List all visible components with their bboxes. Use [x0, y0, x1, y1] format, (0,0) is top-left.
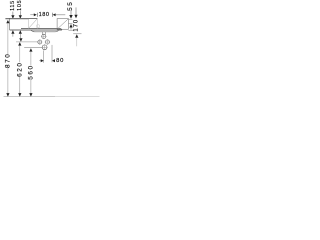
spout bottom line — [5, 18, 28, 20]
faucet hole oval — [36, 25, 39, 28]
basin rim top edge — [21, 28, 62, 30]
arrow down 115 — [11, 15, 14, 19]
leader line 105 — [19, 11, 21, 15]
leader line 55 — [70, 11, 72, 16]
box2 outline — [57, 19, 68, 30]
leader line 170 — [75, 7, 77, 14]
tail right reference — [76, 38, 78, 47]
box1 right edge — [36, 19, 38, 29]
arrow right 180 — [34, 13, 37, 16]
reference line right — [73, 33, 81, 35]
spout top line — [5, 17, 37, 19]
dimension line 870 upper segment — [7, 23, 9, 54]
ext vertical 80 left — [43, 50, 45, 62]
arrow down at valve line — [19, 38, 22, 41]
arrow down 560 floor — [29, 93, 32, 97]
dimension line 620 lower segment — [19, 76, 21, 93]
svg-text:870: 870 — [4, 53, 11, 68]
short line right of box2 — [68, 29, 73, 31]
basin left end vertical — [9, 19, 11, 31]
valve circle right — [45, 40, 49, 44]
ext vertical 80 right — [51, 45, 53, 62]
arrow down 170 — [74, 15, 77, 19]
extension line 560 level — [24, 47, 42, 49]
svg-text:170: 170 — [74, 19, 80, 32]
drain stub right — [44, 32, 46, 35]
drain outlet crosshair — [42, 44, 48, 50]
svg-text:620: 620 — [16, 62, 23, 77]
svg-text:560: 560 — [28, 64, 35, 79]
arrow left 80 — [52, 59, 55, 62]
arrow right 80 — [41, 59, 44, 62]
svg-text:180: 180 — [39, 12, 50, 18]
tick 180 left — [36, 13, 38, 17]
box1 left edge — [28, 19, 30, 29]
tail 115 rim arrow — [12, 34, 14, 37]
extension line 620 level — [16, 41, 38, 43]
svg-text:105: 105 — [17, 0, 23, 11]
arrow down 55 — [69, 15, 72, 19]
floor line — [4, 96, 56, 98]
arrow up right reference — [75, 34, 78, 37]
drain outlet circle — [42, 45, 47, 50]
arrow down 105 — [19, 15, 22, 19]
tail 80 left — [39, 60, 41, 62]
leader line 115 — [12, 12, 14, 16]
dimension line 560 upper segment — [30, 52, 32, 66]
arrow down 870 floor — [6, 93, 9, 97]
arrow down 620 floor — [18, 93, 21, 97]
arrow up 115 at rim — [11, 30, 14, 33]
tick 180 right — [51, 13, 53, 17]
box1 diagonal — [29, 19, 37, 28]
dimension 180 left tail — [30, 14, 34, 16]
dimension line 560 lower segment — [30, 80, 32, 94]
svg-text:80: 80 — [56, 58, 64, 64]
arrow up 620 top — [18, 42, 21, 45]
arrow left 180 — [53, 13, 56, 16]
overflow circle — [42, 34, 46, 38]
dimension 180 right tail — [56, 14, 66, 16]
drain stub left — [42, 32, 44, 35]
arrow up 560 top — [29, 48, 32, 51]
arrow up 870 top — [6, 20, 9, 23]
svg-text:115: 115 — [10, 0, 16, 11]
arrow up 55 lower — [69, 24, 72, 28]
tail 55 lower — [70, 28, 72, 30]
line H2 — [69, 22, 73, 24]
box2 diagonal — [57, 19, 68, 29]
dimension line 620 upper segment — [19, 46, 21, 63]
valve right crosshair — [45, 39, 50, 44]
valve circle left — [38, 40, 42, 44]
overflow crosshair — [41, 34, 47, 39]
svg-text:55: 55 — [67, 1, 74, 11]
dimension line 870 lower segment — [7, 68, 9, 94]
basin bowl underside — [31, 30, 59, 32]
tail 105 rim arrow — [20, 34, 22, 39]
basin rim front edge — [10, 29, 62, 31]
line H1 — [69, 19, 73, 21]
valve left crosshair — [37, 39, 42, 44]
arrow up 105 at rim — [19, 30, 22, 33]
